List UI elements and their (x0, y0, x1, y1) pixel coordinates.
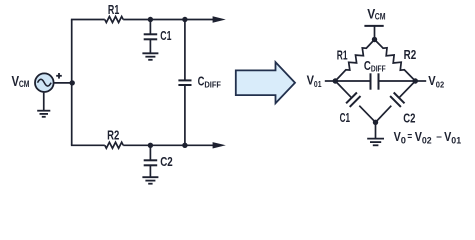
wire top rail left segment (71, 19, 105, 21)
node junction bottom C2 (148, 143, 153, 148)
node junction source (70, 80, 75, 85)
label formula V0 = V02 - V01 (394, 130, 462, 146)
node junction bottom Cdiff (182, 143, 187, 148)
resistor R1 right diagonal (335, 40, 374, 82)
node bottom ground right (373, 120, 378, 125)
wire Cdiff vertical (184, 20, 186, 146)
wire source to bus (54, 82, 72, 84)
svg-text:0: 0 (401, 135, 406, 145)
svg-text:C2: C2 (160, 155, 173, 169)
ground C2 (142, 177, 158, 184)
capacitor CDIFF right (335, 73, 415, 89)
wire top rail right segment (123, 19, 214, 21)
wire V02 lead (415, 80, 426, 82)
wire bottom rail right segment (123, 144, 214, 146)
arrowhead bottom rail output (213, 142, 226, 148)
wire bottom rail left segment (71, 144, 105, 146)
svg-text:02: 02 (422, 135, 432, 145)
resistor R2 (105, 142, 123, 148)
resistor R2 right diagonal (375, 40, 416, 82)
resistor R1 (105, 17, 123, 23)
node V01 (333, 78, 338, 83)
svg-text:02: 02 (436, 80, 445, 90)
svg-text:01: 01 (451, 135, 461, 145)
svg-text:C: C (198, 75, 205, 89)
svg-text:CM: CM (375, 11, 386, 22)
plus sign source (56, 73, 62, 79)
svg-text:CM: CM (19, 78, 30, 89)
svg-text:R2: R2 (404, 48, 417, 62)
svg-text:–: – (436, 130, 442, 142)
capacitor CDIFF left (178, 80, 191, 85)
ground C1 (142, 53, 158, 60)
capacitor C1 right diagonal (335, 81, 375, 122)
big blue arrow (236, 62, 295, 103)
svg-text:R2: R2 (107, 128, 119, 142)
svg-text:DIFF: DIFF (204, 81, 221, 90)
svg-text:DIFF: DIFF (371, 65, 386, 74)
wire VCM terminal right (364, 26, 383, 40)
svg-text:C1: C1 (160, 29, 171, 43)
node top VCM right (372, 37, 377, 42)
svg-text:01: 01 (314, 79, 322, 89)
node V02 (413, 78, 418, 83)
svg-text:C: C (364, 59, 371, 73)
capacitor C1 (144, 20, 158, 53)
ground source (37, 93, 50, 117)
wire left vertical bus (71, 20, 73, 146)
svg-text:R1: R1 (108, 3, 119, 17)
svg-text:R1: R1 (337, 48, 348, 62)
capacitor C2 right diagonal (376, 81, 416, 122)
svg-text:C1: C1 (340, 111, 350, 125)
source VCM circle (35, 73, 54, 92)
node junction top Cdiff (182, 17, 187, 22)
svg-text:=: = (407, 131, 412, 143)
wire V01 lead (325, 80, 336, 82)
node junction top C1 (148, 17, 153, 22)
capacitor C2 (144, 145, 158, 176)
arrowhead top rail output (213, 16, 226, 22)
ground right bridge (367, 122, 384, 145)
svg-text:C2: C2 (403, 112, 415, 126)
